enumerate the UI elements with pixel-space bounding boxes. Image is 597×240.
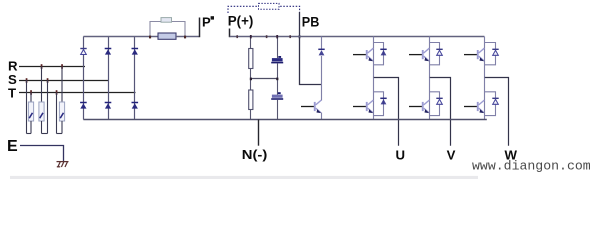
junction on R at x62 xyxy=(61,64,63,69)
wire P1 terminal stub xyxy=(199,18,201,38)
wire between capacitors xyxy=(277,63,279,94)
junction on S at x47.5 xyxy=(47,78,49,83)
wire leg1 lower column xyxy=(373,78,375,120)
wire varistor tap from S2 down xyxy=(47,80,49,134)
wire N(-) terminal drop xyxy=(258,120,260,146)
capacitor C2 bottom plate xyxy=(271,98,283,100)
diode D7 chopper freewheel xyxy=(318,49,324,55)
diode D3 top xyxy=(132,49,139,55)
wire varistor1 lower lead xyxy=(30,121,32,134)
wire leg1 midpoint to U drop xyxy=(374,78,399,146)
jumper bar xyxy=(161,18,172,23)
wire balancing resistor column upper xyxy=(250,37,252,49)
junction PB-rail crossing xyxy=(299,35,301,38)
varistor MOV3 xyxy=(59,102,64,121)
wire rectifier column 2 xyxy=(108,37,110,120)
wire varistor tap from T down xyxy=(56,93,58,134)
junction on R at x41.5 xyxy=(41,64,43,69)
junction rail nub b xyxy=(266,35,268,38)
wire varistor2 lower lead xyxy=(41,121,43,134)
reactor FDT xyxy=(158,33,176,39)
wire resistor column lower xyxy=(250,110,252,120)
wire capacitor column upper xyxy=(277,37,279,59)
svg-text:U: U xyxy=(396,148,406,163)
resistor R2 bus xyxy=(249,90,253,110)
wire rectifier column 1 xyxy=(83,37,85,120)
diode V4 freewheel xyxy=(380,98,386,104)
wire between resistors xyxy=(250,69,252,91)
wire leg2 midpoint to V drop xyxy=(430,78,451,146)
wire leg2 bottom diode loop xyxy=(430,92,440,116)
wire top rail after reactor xyxy=(176,36,199,38)
varistor MOV1 xyxy=(28,102,33,121)
svg-text:N(-): N(-) xyxy=(242,147,267,162)
capacitor C1 bottom plate xyxy=(271,62,283,64)
wire leg3 midpoint to W drop xyxy=(485,78,509,146)
svg-text:P(+): P(+) xyxy=(228,13,254,28)
wire R input line xyxy=(19,66,85,68)
wire PB line down to chopper collector xyxy=(300,12,322,85)
transistor V4 xyxy=(353,100,373,113)
wire varistor1 branch from T xyxy=(30,93,32,104)
varistor MOV2 xyxy=(39,102,44,121)
wire chopper emitter to N rail xyxy=(321,113,323,120)
wire top rail right segment xyxy=(230,36,485,38)
junction on T at x56.5 xyxy=(56,90,58,95)
braking resistor dashed box xyxy=(259,3,280,9)
diode V2 freewheel xyxy=(492,98,498,104)
ground symbol xyxy=(57,162,69,167)
transistor V5 xyxy=(464,48,484,61)
junction jumper right xyxy=(184,36,186,39)
wire varistor3 branch from R xyxy=(61,67,63,104)
capacitor C2 polarity tick xyxy=(278,92,281,94)
wire inverter leg1 column xyxy=(373,37,375,78)
diode D2 top xyxy=(105,49,112,55)
diode V1 freewheel xyxy=(380,49,386,55)
wire leg2 lower column xyxy=(429,78,431,120)
transistor V6 xyxy=(409,100,429,113)
junction mid link right xyxy=(276,78,278,81)
wire varistor3 lower lead xyxy=(61,121,63,134)
diode D5 bottom xyxy=(105,103,112,109)
diode D4 bottom xyxy=(80,103,87,109)
wire leg1 top diode loop xyxy=(374,43,384,65)
svg-text:E: E xyxy=(7,138,18,155)
junction jumper left xyxy=(149,36,151,39)
capacitor C1 top plate xyxy=(272,58,283,61)
junction rail-capacitor xyxy=(276,35,278,38)
svg-text:V: V xyxy=(447,148,456,163)
junction on S at x26.5 xyxy=(26,78,28,83)
wire inverter leg3 column xyxy=(484,37,486,78)
wire leg1 bottom diode loop xyxy=(374,92,384,116)
diode V6 freewheel xyxy=(436,98,442,104)
wire rectifier column 3 xyxy=(134,37,136,120)
junction rail-resistor xyxy=(250,35,252,38)
wire varistor2 branch from R xyxy=(41,67,43,104)
transistor V2 xyxy=(464,100,484,113)
wire U-join varistor2 xyxy=(42,133,48,135)
wire bottom N rail xyxy=(83,119,486,121)
diode V3 freewheel xyxy=(436,49,442,55)
wire top rail left segment xyxy=(83,36,158,38)
junction rail nub a xyxy=(236,35,238,38)
svg-text:T: T xyxy=(8,85,16,100)
resistor R1 bus xyxy=(249,49,253,69)
wire capacitor column lower xyxy=(277,100,279,120)
junction mid link left xyxy=(250,78,252,81)
diode V5 freewheel xyxy=(492,49,498,55)
wire jumper link over reactor xyxy=(150,22,185,38)
svg-text:www.diangon.com: www.diangon.com xyxy=(472,159,591,174)
wire leg3 lower column xyxy=(484,78,486,120)
wire dashed braking resistor link xyxy=(228,6,300,13)
capacitor C1 polarity tick xyxy=(278,56,281,58)
diode D6 bottom xyxy=(132,103,139,109)
junction on T at x31 xyxy=(30,90,32,95)
svg-text:PB: PB xyxy=(302,15,320,30)
wire mid-bus balance link xyxy=(251,78,278,80)
wire U-join varistor1 xyxy=(27,133,32,135)
transistor V1 xyxy=(353,48,373,61)
wire inverter leg2 column xyxy=(429,37,431,78)
junction rail nub c xyxy=(289,35,291,38)
wire leg2 top diode loop xyxy=(430,43,440,65)
wire leg3 bottom diode loop xyxy=(485,92,496,116)
wire T input line xyxy=(19,92,136,94)
wire S input line xyxy=(19,80,109,82)
wire E ground line xyxy=(20,146,64,162)
wire chopper column middle xyxy=(321,56,323,101)
capacitor C2 top plate xyxy=(272,95,283,98)
wire leg3 top diode loop xyxy=(485,43,496,65)
wire varistor tap from S down xyxy=(26,80,28,134)
diode D1 top xyxy=(80,49,86,55)
wire chopper column upper xyxy=(321,37,323,50)
svg-text:P: P xyxy=(202,15,211,30)
wire P(+) terminal stub xyxy=(229,29,231,38)
transistor VB brake chopper xyxy=(301,100,321,113)
wire U-join varistor3 xyxy=(57,133,63,135)
transistor V3 xyxy=(409,48,429,61)
bottom scrollbar band xyxy=(10,176,478,179)
